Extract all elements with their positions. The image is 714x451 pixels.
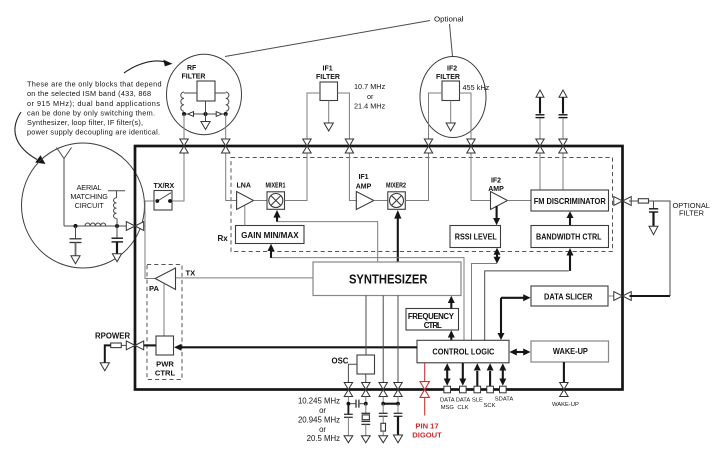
PWR CTRL block <box>156 336 174 355</box>
svg-text:or: or <box>367 92 374 101</box>
ground <box>344 436 353 443</box>
supply arrow right above FM discriminator <box>559 90 567 114</box>
svg-text:WAKE-UP: WAKE-UP <box>553 346 588 356</box>
aerial circle <box>22 143 145 268</box>
pin crystal 2 <box>362 383 370 397</box>
svg-text:DATA: DATA <box>456 398 471 404</box>
wire RF right leg to pin <box>225 114 227 140</box>
pin PIN 17 red <box>420 382 429 398</box>
pin supply right <box>559 139 567 153</box>
thick link pins 3-4 <box>383 403 398 405</box>
wire cap to pin <box>539 118 541 139</box>
wire antenna pin to PA <box>145 226 155 279</box>
ground <box>324 123 333 131</box>
LNA amplifier <box>237 192 254 210</box>
wire IF2 right leg <box>460 93 472 140</box>
wire crystal pin 3 drop <box>382 397 384 404</box>
AERIAL MATCHING CIRCUIT label <box>70 183 108 210</box>
ground <box>100 363 109 371</box>
svg-text:CLK: CLK <box>457 405 468 411</box>
arrow bidirectional DATA MSG <box>444 363 451 386</box>
CONTROL LOGIC block <box>417 340 509 363</box>
wire cap to pin <box>562 118 564 139</box>
FREQUENCY CTRL block <box>406 309 459 331</box>
svg-text:MSG: MSG <box>441 405 455 411</box>
chip boundary <box>135 146 623 390</box>
wire synthesizer to pin 3 <box>382 296 384 384</box>
svg-text:CIRCUIT: CIRCUIT <box>75 201 105 210</box>
svg-text:PWR: PWR <box>156 360 174 369</box>
arrow SCK in <box>487 363 494 386</box>
svg-text:SCK: SCK <box>484 403 496 409</box>
svg-text:SDATA: SDATA <box>495 397 514 403</box>
IF2 AMP label <box>488 177 504 193</box>
svg-text:PIN 17: PIN 17 <box>415 421 438 430</box>
GAIN MIN/MAX block <box>236 226 305 244</box>
OPTIONAL FILTER label <box>673 201 710 218</box>
arrow LO synthesizer to MIXER2 <box>394 210 401 262</box>
wire resistor to loop <box>649 201 671 296</box>
10.7 MHz label <box>354 82 386 111</box>
svg-text:or: or <box>319 406 326 415</box>
ground <box>361 436 370 443</box>
Rx dashed region <box>231 158 613 252</box>
svg-text:FREQUENCY: FREQUENCY <box>408 312 455 321</box>
node dot pin4 <box>396 402 400 406</box>
PA dashed region <box>147 265 182 380</box>
node dot pin2 <box>364 402 368 406</box>
pad DATA CLK <box>460 386 467 393</box>
IF2 filter box <box>442 81 460 101</box>
svg-text:CTRL: CTRL <box>155 369 176 378</box>
arrow control logic to DATA SLICER and down <box>498 294 531 340</box>
arrow DATA CLK out <box>459 363 466 386</box>
svg-text:BANDWIDTH CTRL: BANDWIDTH CTRL <box>536 232 602 242</box>
svg-text:AERIAL: AERIAL <box>77 183 102 192</box>
svg-text:IF2: IF2 <box>447 66 457 73</box>
arrow FREQUENCY CTRL to SYNTHESIZER <box>448 296 455 309</box>
wire resistor to ground <box>105 345 111 362</box>
wire OSC left to pin <box>348 364 357 383</box>
ground <box>379 436 388 443</box>
pin FM discriminator out <box>614 197 631 206</box>
arrow into BANDWIDTH CTRL <box>567 248 574 271</box>
svg-text:RPOWER: RPOWER <box>95 332 130 341</box>
node dot pin3 <box>381 402 385 406</box>
amplifier IF1 AMP <box>356 192 374 210</box>
IF1 FILTER label <box>316 66 340 81</box>
amplifier IF2 AMP <box>491 192 508 210</box>
curved arrow from note to RF filter <box>124 60 173 73</box>
wire control logic to GAIN MIN/MAX <box>271 258 464 341</box>
wire loop to DATA SLICER pin <box>630 295 671 297</box>
arrow into MIXER1 <box>273 210 280 222</box>
pin IF1 right <box>345 139 353 153</box>
inductor horizontal <box>85 223 106 226</box>
wire FM disc pin to external resistor <box>629 200 638 202</box>
svg-text:20.945 MHz: 20.945 MHz <box>298 415 340 424</box>
DATA SLICER block <box>531 286 608 306</box>
curved arrow from note to aerial circle <box>15 112 46 164</box>
svg-text:FILTER: FILTER <box>679 209 704 218</box>
wire MIXER1 to IF1 filter pin <box>285 153 308 201</box>
wire box to right coil <box>215 92 226 94</box>
wire box to left coil <box>184 92 197 94</box>
leader line Optional to RF filter <box>225 21 430 57</box>
pin IF1 left <box>303 139 311 153</box>
pad SDATA <box>500 386 507 393</box>
svg-text:20.5 MHz: 20.5 MHz <box>307 434 340 443</box>
svg-text:LNA: LNA <box>237 183 251 190</box>
resistor optional filter <box>638 199 648 203</box>
arrow bidirectional RSSI control <box>494 248 501 264</box>
pin antenna <box>126 222 143 231</box>
RF filter circle <box>167 54 242 134</box>
wire synthesizer to pin 4 <box>397 296 399 384</box>
ground <box>649 226 658 234</box>
svg-text:WAKE-UP: WAKE-UP <box>552 402 579 408</box>
svg-text:SYNTHESIZER: SYNTHESIZER <box>349 272 428 286</box>
inductor right coil <box>226 92 229 111</box>
capacitor optional filter <box>649 201 658 226</box>
wire LNA to GAIN MIN/MAX <box>244 205 246 225</box>
capacitor series between pins 1 and 2 <box>348 400 365 408</box>
svg-text:on the selected ISM band (433,: on the selected ISM band (433, 868 <box>27 89 151 98</box>
supply arrow left above FM discriminator <box>536 90 544 114</box>
svg-text:OSC: OSC <box>332 357 349 366</box>
pin IF2 right <box>467 139 475 153</box>
svg-text:can be done by only switching: can be done by only switching them. <box>27 108 155 117</box>
capacitor left supply <box>536 115 545 118</box>
node dot center <box>204 112 208 116</box>
svg-text:RSSI LEVEL: RSSI LEVEL <box>455 232 497 242</box>
svg-text:power supply decoupling are id: power supply decoupling are identical. <box>27 128 160 137</box>
ground <box>446 123 455 131</box>
resistor RPOWER <box>111 343 122 348</box>
wire crystal pin 2 drop <box>365 397 367 404</box>
svg-text:MIXER2: MIXER2 <box>386 183 406 190</box>
wire aerial rail <box>64 225 129 227</box>
wire LO from synthesizer to MIXER1 <box>277 218 378 262</box>
wire synthesizer to OSC <box>365 296 367 356</box>
svg-text:455 kHz: 455 kHz <box>463 83 490 92</box>
wire pin to PWR CTRL <box>142 344 157 346</box>
pad SLE <box>474 386 481 393</box>
wire IF1 AMP to MIXER2 <box>374 200 388 202</box>
pin RF right <box>222 139 230 153</box>
amplifier PA <box>155 268 175 290</box>
note text block <box>27 80 162 137</box>
wire IF2 filter pin to IF2 AMP <box>471 153 491 201</box>
svg-text:DATA SLICER: DATA SLICER <box>544 291 593 301</box>
svg-text:Optional: Optional <box>434 15 464 24</box>
svg-text:IF2: IF2 <box>491 177 501 184</box>
RSSI LEVEL block <box>450 226 501 248</box>
wire rail joining coils <box>184 113 226 115</box>
PWR CTRL label <box>155 360 176 378</box>
capacitor and resistor at pin3 <box>379 404 388 436</box>
BANDWIDTH CTRL block <box>531 226 609 248</box>
wire antenna pin to TX/RX <box>142 201 155 226</box>
wire IF2 AMP to FM discriminator <box>508 200 532 202</box>
pin RF left <box>180 139 188 153</box>
pad DATA MSG <box>444 386 451 393</box>
wire MIXER2 to IF2 filter pin <box>405 153 428 201</box>
pin RPOWER <box>126 341 143 350</box>
ground <box>112 254 121 262</box>
antenna <box>57 148 72 227</box>
TX/RX switch box <box>154 191 172 211</box>
arrow WAKE-UP to pin <box>563 362 565 382</box>
arrow bidirectional SDATA <box>499 363 506 386</box>
svg-text:DIGOUT: DIGOUT <box>412 431 442 440</box>
wire DATA SLICER to pin <box>608 295 616 297</box>
node dot right <box>224 112 228 116</box>
svg-text:FM DISCRIMINATOR: FM DISCRIMINATOR <box>534 196 606 206</box>
arrow CONTROL LOGIC to FREQUENCY CTRL <box>448 330 455 340</box>
arrow BANDWIDTH CTRL to FM discriminator <box>567 211 574 225</box>
svg-text:CTRL: CTRL <box>424 321 442 330</box>
wire pin to LNA <box>226 153 237 201</box>
WAKE-UP block <box>531 341 609 362</box>
arrow into GAIN MIN/MAX <box>268 244 275 258</box>
svg-text:or 915 MHz); dual band applica: or 915 MHz); dual band applications <box>27 99 160 108</box>
ground <box>393 435 402 443</box>
svg-text:FILTER: FILTER <box>182 73 206 80</box>
arrow mark left <box>188 112 194 117</box>
ground <box>71 256 80 264</box>
svg-text:10.7 MHz: 10.7 MHz <box>354 82 386 91</box>
wire box bottom to ground <box>205 101 207 122</box>
wire TX/RX to antenna-side pin <box>172 153 184 202</box>
pad SCK <box>487 386 494 393</box>
arrow bidirectional control logic wake-up <box>509 349 530 356</box>
crystal at pin2 <box>361 404 370 436</box>
wire crystal pin 1 drop <box>347 397 349 404</box>
inductor vertical with stub <box>108 191 125 226</box>
capacitor to ground left <box>70 226 82 256</box>
svg-text:FILTER: FILTER <box>436 74 460 81</box>
svg-text:TX: TX <box>186 269 196 278</box>
svg-text:or: or <box>319 425 326 434</box>
inductor left coil <box>181 92 184 111</box>
svg-text:10.245 MHz: 10.245 MHz <box>298 397 340 406</box>
mixer MIXER2 <box>388 192 406 210</box>
switch blade <box>158 193 172 201</box>
arrow SLE in <box>474 363 481 386</box>
pad labels <box>440 397 513 412</box>
crystal frequency labels <box>298 397 340 444</box>
RF filter box <box>197 81 215 101</box>
capacitor to ground right <box>112 226 124 254</box>
PIN 17 DIGOUT label <box>412 421 442 439</box>
svg-text:SLE: SLE <box>472 398 483 404</box>
wire PA to PWR CTRL <box>163 284 165 337</box>
svg-text:21.4 MHz: 21.4 MHz <box>354 102 386 111</box>
FM DISCRIMINATOR block <box>531 190 609 211</box>
svg-text:GAIN MIN/MAX: GAIN MIN/MAX <box>241 230 299 240</box>
node dot pin1 <box>347 402 351 406</box>
svg-text:MIXER1: MIXER1 <box>266 183 286 190</box>
svg-text:DATA: DATA <box>440 398 455 404</box>
SYNTHESIZER block <box>313 262 461 296</box>
svg-text:RF: RF <box>187 65 197 72</box>
svg-text:These are the only blocks that: These are the only blocks that depend <box>27 80 162 89</box>
pin DATA SLICER in <box>614 292 631 301</box>
pin IF2 left <box>424 139 432 153</box>
wire FM discriminator supply left <box>539 153 541 191</box>
svg-text:IF1: IF1 <box>323 66 333 73</box>
leader line Optional to IF2 filter <box>450 24 453 57</box>
RF FILTER label <box>182 65 206 80</box>
svg-text:MATCHING: MATCHING <box>70 192 108 201</box>
svg-text:Synthesizer, loop filter, IF f: Synthesizer, loop filter, IF filter(s), <box>27 118 143 127</box>
capacitor pin1 to ground <box>344 404 353 436</box>
node dot <box>74 224 78 228</box>
pin crystal 1 <box>344 383 352 397</box>
ground <box>201 122 210 130</box>
wire RF left leg to pin <box>183 114 185 140</box>
node dot <box>115 224 119 228</box>
wire IF2 left leg <box>429 93 443 140</box>
svg-text:TX/RX: TX/RX <box>154 183 175 190</box>
wire IF2 ground stem <box>450 101 452 124</box>
wire synthesizer to PA <box>176 277 314 279</box>
IF2 FILTER label <box>436 66 460 81</box>
svg-text:AMP: AMP <box>356 183 372 190</box>
arrow control logic to PWR CTRL <box>174 344 417 351</box>
wire OSC bottom to pin <box>365 374 367 383</box>
wire IF1 filter pin to IF1 AMP <box>349 153 356 201</box>
wire FM discriminator supply right <box>562 153 564 191</box>
svg-text:FILTER: FILTER <box>316 74 340 81</box>
svg-text:Rx: Rx <box>218 234 229 243</box>
wire IF1 right leg <box>338 93 350 140</box>
pin WAKE-UP <box>560 383 568 397</box>
wire resistor to pin <box>121 344 128 346</box>
wire IF1 left leg <box>307 93 320 140</box>
capacitor right supply <box>559 115 568 118</box>
wire PIN 17 red <box>424 363 426 416</box>
OSC block <box>357 355 375 374</box>
svg-text:PA: PA <box>149 284 160 293</box>
wire control logic to BANDWIDTH CTRL <box>485 271 569 340</box>
IF2 filter circle <box>420 57 486 138</box>
svg-text:IF1: IF1 <box>358 174 368 181</box>
svg-text:CONTROL LOGIC: CONTROL LOGIC <box>432 347 494 357</box>
IF1 filter box <box>320 82 338 101</box>
wire crystal pin 4 drop <box>397 397 399 404</box>
wire LNA to MIXER1 <box>254 200 268 202</box>
mixer MIXER1 <box>267 192 285 210</box>
IF1 AMP label <box>356 174 372 190</box>
pin supply left <box>536 139 544 153</box>
arrow mark right <box>216 112 222 117</box>
capacitor at pin4 <box>394 404 403 435</box>
arrow IF2 AMP to RSSI LEVEL <box>493 206 500 225</box>
switch pole dots <box>155 199 172 203</box>
node dot left <box>182 112 186 116</box>
wire IF1 ground stem <box>328 101 330 124</box>
wire RSSI to control logic <box>472 264 498 341</box>
pin crystal 3 <box>379 383 387 397</box>
pin crystal 4 <box>394 383 402 397</box>
